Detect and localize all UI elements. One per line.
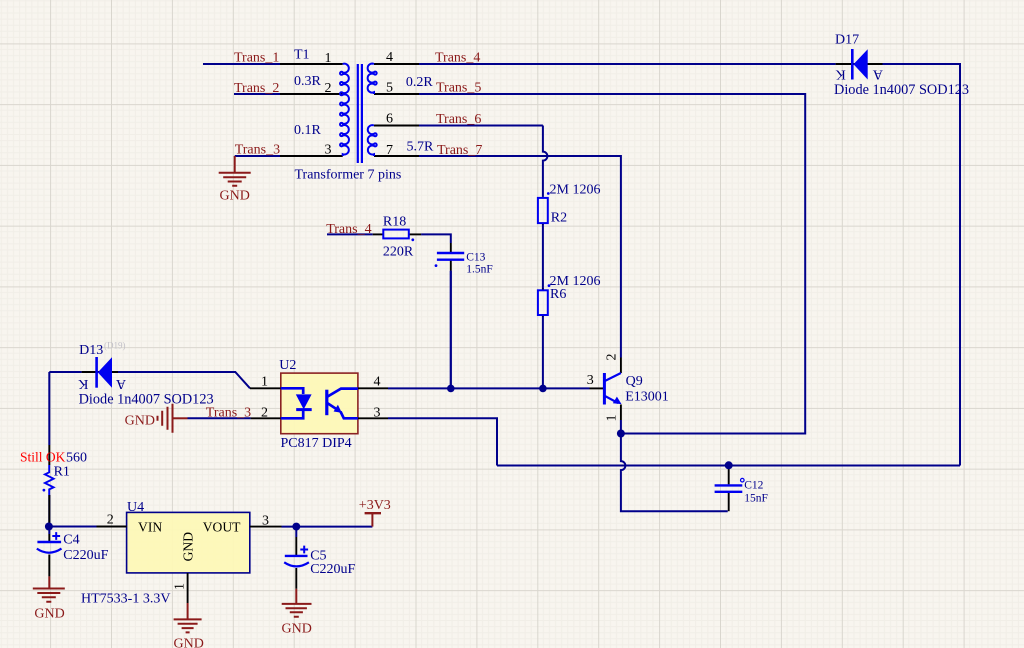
svg-text:4: 4 — [386, 50, 393, 65]
svg-text:1: 1 — [173, 583, 188, 590]
svg-text:Diode 1n4007 SOD123: Diode 1n4007 SOD123 — [79, 391, 214, 407]
svg-text:1: 1 — [325, 51, 332, 66]
svg-text:GND: GND — [282, 621, 312, 636]
svg-text:560: 560 — [66, 451, 87, 466]
svg-text:3: 3 — [262, 514, 269, 529]
svg-text:2M 1206: 2M 1206 — [550, 183, 601, 198]
svg-text:15nF: 15nF — [744, 492, 768, 504]
svg-text:Trans_3: Trans_3 — [206, 405, 251, 420]
svg-text:220R: 220R — [383, 245, 414, 260]
svg-text:0.3R: 0.3R — [294, 74, 322, 89]
svg-text:Trans_7: Trans_7 — [437, 143, 482, 158]
svg-text:Transformer 7 pins: Transformer 7 pins — [295, 168, 402, 183]
svg-text:C220uF: C220uF — [310, 562, 355, 577]
svg-text:+3V3: +3V3 — [359, 498, 391, 513]
svg-text:0.1R: 0.1R — [294, 123, 322, 138]
svg-text:Trans_1: Trans_1 — [234, 51, 279, 66]
svg-text:GND: GND — [125, 414, 155, 429]
svg-text:2: 2 — [107, 513, 114, 528]
svg-text:Trans_6: Trans_6 — [436, 112, 481, 127]
svg-text:K: K — [836, 67, 846, 82]
svg-text:1.5nF: 1.5nF — [466, 264, 493, 276]
svg-text:A: A — [872, 67, 883, 82]
svg-text:Trans_4: Trans_4 — [326, 222, 371, 237]
svg-text:GND: GND — [34, 607, 64, 622]
svg-text:Trans_2: Trans_2 — [234, 81, 279, 96]
svg-text:Trans_4: Trans_4 — [435, 51, 480, 66]
svg-text:GND: GND — [181, 532, 196, 562]
svg-text:C12: C12 — [744, 479, 763, 491]
svg-text:Trans_3: Trans_3 — [235, 143, 280, 158]
svg-text:3: 3 — [374, 405, 381, 420]
svg-text:2: 2 — [325, 81, 332, 96]
svg-text:T1: T1 — [294, 48, 310, 63]
svg-text:VOUT: VOUT — [203, 520, 241, 535]
svg-text:5.7R: 5.7R — [407, 140, 435, 155]
svg-text:6: 6 — [386, 112, 393, 127]
svg-text:1: 1 — [605, 415, 620, 422]
svg-text:R6: R6 — [550, 287, 566, 302]
svg-text:3: 3 — [325, 143, 332, 158]
svg-text:2: 2 — [605, 354, 620, 361]
svg-text:U4: U4 — [127, 500, 144, 515]
svg-text:Diode 1n4007 SOD123: Diode 1n4007 SOD123 — [834, 82, 969, 98]
svg-text:1: 1 — [261, 375, 268, 390]
svg-text:E13001: E13001 — [625, 389, 669, 404]
svg-text:Trans_5: Trans_5 — [436, 81, 481, 96]
svg-text:A: A — [115, 376, 126, 391]
svg-text:VIN: VIN — [138, 520, 162, 535]
svg-text:7: 7 — [386, 143, 393, 158]
svg-text:2: 2 — [261, 405, 268, 420]
svg-text:0.2R: 0.2R — [406, 75, 434, 90]
svg-text:GND: GND — [174, 636, 204, 648]
svg-text:Q9: Q9 — [626, 374, 643, 389]
svg-text:U2: U2 — [279, 358, 296, 373]
svg-text:R2: R2 — [551, 211, 567, 226]
svg-text:C4: C4 — [63, 532, 79, 547]
svg-text:R18: R18 — [383, 215, 406, 230]
svg-text:5: 5 — [386, 81, 393, 96]
svg-text:PC817 DIP4: PC817 DIP4 — [281, 436, 352, 451]
svg-text:Still OK: Still OK — [20, 449, 66, 464]
svg-text:D13: D13 — [79, 343, 103, 358]
svg-text:R1: R1 — [54, 465, 70, 480]
svg-text:C220uF: C220uF — [63, 548, 108, 563]
svg-text:4: 4 — [374, 375, 381, 390]
svg-text:D17: D17 — [835, 33, 859, 48]
svg-text:3: 3 — [587, 373, 594, 388]
svg-text:HT7533-1 3.3V: HT7533-1 3.3V — [81, 591, 170, 606]
svg-text:(D19): (D19) — [104, 340, 126, 350]
svg-text:GND: GND — [220, 189, 250, 204]
svg-text:K: K — [78, 376, 88, 391]
svg-text:C13: C13 — [466, 251, 485, 263]
